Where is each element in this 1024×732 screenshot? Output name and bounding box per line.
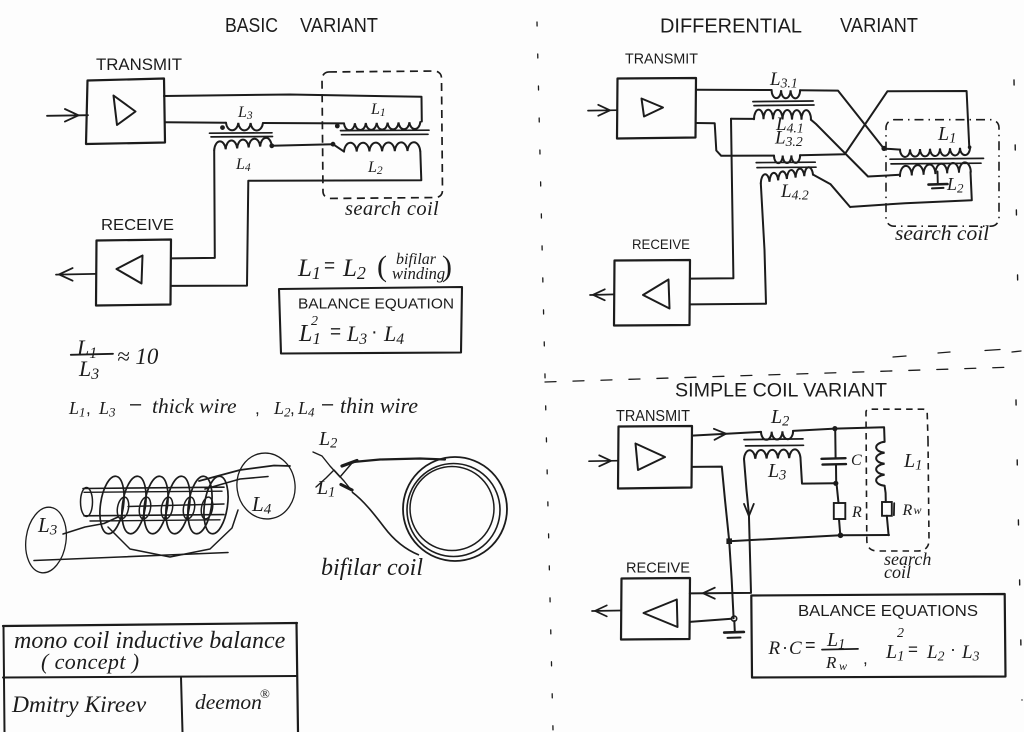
svg-text:VARIANT: VARIANT [300,15,378,37]
svg-text:TRANSMIT: TRANSMIT [625,51,698,68]
svg-text:,: , [255,399,260,418]
svg-text:R: R [768,638,781,659]
svg-text:BASIC: BASIC [225,15,278,37]
svg-text:winding: winding [392,264,445,283]
svg-text:bifilar coil: bifilar coil [321,555,423,581]
svg-text:( concept ): ( concept ) [41,649,139,674]
svg-text:,: , [290,399,295,418]
svg-text:C: C [789,638,802,659]
svg-text:,: , [86,399,91,418]
svg-text:≈ 10: ≈ 10 [117,344,159,369]
svg-text:·: · [950,639,956,659]
svg-text:TRANSMIT: TRANSMIT [616,408,690,425]
svg-text:·: · [371,321,378,343]
svg-text:BALANCE EQUATION: BALANCE EQUATION [298,296,454,313]
svg-text:thin wire: thin wire [340,393,418,418]
svg-text:,: , [863,649,868,668]
svg-text:VARIANT: VARIANT [840,15,918,37]
svg-text:=: = [908,640,918,659]
svg-text:deemon: deemon [195,690,262,714]
svg-text:Dmitry Kireev: Dmitry Kireev [11,692,147,718]
svg-text:=: = [805,635,816,655]
svg-text:DIFFERENTIAL: DIFFERENTIAL [660,16,802,38]
svg-text:R: R [851,504,862,521]
svg-text:®: ® [260,686,270,701]
svg-text:(: ( [377,250,387,283]
svg-text:TRANSMIT: TRANSMIT [96,55,182,74]
svg-text:·: · [782,637,788,657]
svg-text:RECEIVE: RECEIVE [626,560,690,577]
svg-text:2: 2 [897,626,904,641]
svg-text:SIMPLE COIL VARIANT: SIMPLE COIL VARIANT [675,381,887,402]
svg-text:w: w [839,659,847,673]
svg-text:thick wire: thick wire [152,394,237,418]
svg-text:search coil: search coil [345,198,439,220]
svg-text:–: – [322,393,334,415]
svg-text:w: w [914,503,922,517]
svg-text:R: R [902,502,913,519]
svg-text:2: 2 [311,314,318,329]
svg-text:RECEIVE: RECEIVE [101,217,174,234]
svg-text:=: = [330,322,341,343]
svg-text:=: = [324,256,335,277]
svg-text:BALANCE EQUATIONS: BALANCE EQUATIONS [798,603,978,620]
svg-text:C: C [851,452,862,469]
svg-text:search coil: search coil [895,221,989,245]
svg-text:coil: coil [884,562,911,582]
svg-text:–: – [130,393,142,415]
svg-text:RECEIVE: RECEIVE [632,236,690,252]
svg-text:R: R [825,653,837,672]
